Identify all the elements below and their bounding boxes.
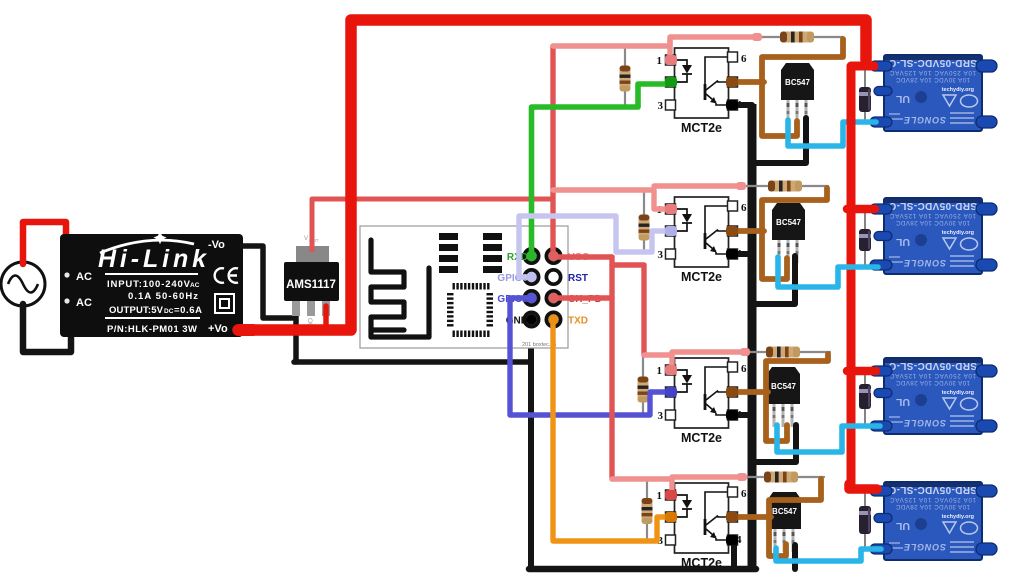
svg-text:6: 6 bbox=[741, 53, 747, 65]
relay RLY2 pin NO bbox=[976, 259, 997, 271]
wire -Vo to AMS1117 GND (black) bbox=[242, 246, 292, 318]
ESP-01 header pin rings bbox=[523, 247, 541, 265]
series resistor R2b body bbox=[768, 181, 802, 192]
relay RLY1 pin NC bbox=[874, 87, 892, 96]
svg-text:BC547: BC547 bbox=[785, 78, 810, 87]
wire channel 3 feed stub to U3 pin 1 bbox=[669, 354, 674, 368]
U4 pin1 cap bbox=[665, 490, 677, 500]
wire channel 4 base network (brown) bbox=[769, 479, 821, 556]
R4b lead cap bbox=[737, 473, 747, 481]
wire Q4 collector to RLY4 coil (cyan) bbox=[776, 548, 881, 561]
+V branch V1 to V2 (red) bbox=[612, 262, 644, 267]
svg-text:10A 30VDC 10A 28VDC: 10A 30VDC 10A 28VDC bbox=[895, 219, 970, 226]
wire Q4 emitter to GND bottom run (black) bbox=[792, 545, 798, 569]
wire GND bottom run (black) bbox=[529, 566, 756, 573]
svg-text:BC547: BC547 bbox=[771, 382, 796, 391]
U4 internal phototransistor bbox=[705, 492, 728, 520]
pull-up resistor R2a body bbox=[639, 215, 650, 241]
svg-text:1: 1 bbox=[657, 365, 663, 377]
svg-text:P/N:HLK-PM01 3W: P/N:HLK-PM01 3W bbox=[107, 324, 197, 335]
flyback diode D1 1N4007 bbox=[859, 87, 871, 112]
wire U1 pin 5 to brown node bbox=[735, 79, 764, 85]
R3b lead cap bbox=[740, 348, 750, 356]
series resistor R2b lead bbox=[741, 185, 828, 187]
svg-text:techydiy.org: techydiy.org bbox=[942, 230, 974, 236]
regulator U2 AMS1117 bbox=[284, 246, 339, 316]
svg-text:3: 3 bbox=[658, 249, 664, 261]
svg-text:UL: UL bbox=[895, 396, 910, 408]
relay RLY4 pin NO bbox=[976, 543, 997, 555]
svg-text:UL: UL bbox=[895, 93, 910, 105]
flyback diode D3 1N4007 bbox=[859, 384, 871, 409]
svg-text:SONGLE: SONGLE bbox=[903, 542, 946, 552]
relay RLY3 pin NO bbox=[976, 420, 997, 432]
relay RLY2 coil pin + bbox=[870, 204, 892, 214]
svg-text:6: 6 bbox=[741, 363, 747, 375]
svg-text:V: V bbox=[304, 236, 308, 242]
flyback diode D1 lead bbox=[864, 62, 866, 122]
relay RLY3 coil pin + bbox=[870, 366, 892, 376]
svg-text:AC: AC bbox=[190, 282, 200, 289]
U2 internal LED bbox=[676, 209, 693, 231]
relay RLY4 coil pin + bbox=[870, 486, 892, 496]
wire channel 2 base network (brown) bbox=[762, 188, 827, 279]
U3 pin4 cap bbox=[726, 410, 738, 420]
wire channel 4 feed stub to U4 pin 1 bbox=[669, 478, 674, 493]
relay RLY2 pin COM bbox=[976, 203, 997, 215]
wire Q2 collector to RLY2 coil (cyan) bbox=[778, 257, 878, 287]
wire U4 pin 5 to brown node bbox=[735, 514, 771, 520]
optocoupler U4 MCT2e body bbox=[657, 483, 748, 570]
U1 pin4 cap bbox=[726, 100, 738, 110]
+5V relay rail (thick red) bbox=[851, 66, 874, 484]
wire U1 pin 4 to GND rail (black) bbox=[733, 102, 752, 108]
flyback diode D3 lead bbox=[864, 369, 866, 426]
U1 internal phototransistor bbox=[705, 57, 728, 85]
pull-up resistor R4a body bbox=[642, 498, 653, 524]
series resistor R4b lead bbox=[742, 476, 824, 478]
relay RLY3 SRD-05VDC-SL-C bbox=[870, 358, 997, 434]
wire channel 4 +V feed (salmon) bbox=[612, 477, 742, 479]
svg-text:techydiy.org: techydiy.org bbox=[942, 514, 974, 520]
svg-text:10A 30VDC 10A 28VDC: 10A 30VDC 10A 28VDC bbox=[895, 76, 970, 83]
svg-text:SONGLE: SONGLE bbox=[903, 418, 946, 428]
svg-text:BC547: BC547 bbox=[776, 218, 801, 227]
svg-text:SRD-05VDC-SL-C: SRD-05VDC-SL-C bbox=[889, 360, 977, 371]
U3 pin5 cap bbox=[726, 387, 738, 397]
pull-up resistor R2a lead bbox=[643, 190, 645, 251]
svg-text:1: 1 bbox=[657, 490, 663, 502]
svg-text:-Vo: -Vo bbox=[208, 239, 225, 251]
U4 pin4 cap bbox=[726, 535, 738, 545]
wire channel 1 feed stub to U1 pin 1 bbox=[667, 40, 672, 58]
svg-text:BC547: BC547 bbox=[772, 507, 797, 516]
wire AMS1117 GND down (black) bbox=[293, 312, 299, 362]
U2 internal phototransistor bbox=[705, 206, 728, 234]
relay RLY1 pin COM bbox=[976, 60, 997, 72]
relay RLY1 pin NO bbox=[976, 116, 997, 128]
ESP-01 PCB antenna bbox=[371, 240, 429, 337]
series resistor R3b body bbox=[766, 347, 800, 358]
svg-text:SONGLE: SONGLE bbox=[903, 115, 946, 125]
svg-text:10A 250VAC 10A 125VAC: 10A 250VAC 10A 125VAC bbox=[889, 69, 976, 76]
svg-text:RST: RST bbox=[568, 273, 588, 284]
wire TXD (orange) ESP to U4 pin 2 bbox=[553, 322, 665, 541]
svg-text:10A 250VAC 10A 125VAC: 10A 250VAC 10A 125VAC bbox=[889, 372, 976, 379]
relay RLY3 pin NC bbox=[874, 389, 892, 398]
wire RXD (green) ESP RX to U1 pin 2 bbox=[532, 84, 666, 253]
svg-text:SRD-05VDC-SL-C: SRD-05VDC-SL-C bbox=[889, 200, 977, 211]
svg-text:techydiy.org: techydiy.org bbox=[942, 390, 974, 396]
wire U3 pin 5 to brown node bbox=[735, 389, 768, 395]
enclosure class II symbol bbox=[215, 294, 234, 313]
wire U4 pin 4 down to GND bottom run (black) bbox=[731, 540, 737, 569]
relay RLY1 coil pin + bbox=[870, 61, 892, 71]
wire Q3 collector to RLY3 coil (cyan) bbox=[777, 425, 880, 452]
wire channel 3 base network (brown) bbox=[766, 354, 828, 441]
svg-text:techydiy.org: techydiy.org bbox=[942, 87, 974, 93]
relay RLY1 SRD-05VDC-SL-C bbox=[870, 55, 997, 131]
R1b lead cap bbox=[752, 33, 762, 41]
pull-up resistor R1a body bbox=[620, 66, 631, 92]
svg-text:10A 250VAC 10A 125VAC: 10A 250VAC 10A 125VAC bbox=[889, 212, 976, 219]
optocoupler U2 MCT2e body bbox=[657, 197, 748, 284]
U2 pin2 cap (GPIO0) bbox=[665, 226, 677, 236]
ESP-01 pad group B bbox=[483, 233, 502, 240]
pull-up resistor R3a lead bbox=[642, 356, 644, 415]
U4 internal LED bbox=[676, 495, 693, 517]
+5V branch to RLY4 coil bbox=[849, 484, 877, 489]
wire channel 1 +V feed (salmon) bbox=[553, 37, 757, 46]
wire U2 pin 5 to brown node bbox=[735, 228, 764, 234]
pull-up resistor R4a lead bbox=[646, 481, 648, 541]
relay RLY3 pin COM bbox=[976, 365, 997, 377]
wire ESP GND down (black) bbox=[528, 321, 534, 569]
relay RLY2 coil pin - bbox=[870, 260, 892, 270]
transistor Q2 BC547 bbox=[772, 203, 805, 263]
svg-text:MCT2e: MCT2e bbox=[681, 121, 722, 135]
U4 pin5 cap bbox=[726, 512, 738, 522]
wire VCC riser (red) ESP VCC up to channel 1 feed bbox=[550, 46, 555, 256]
U2 pin4 cap bbox=[726, 249, 738, 259]
svg-text:INPUT:100-240V: INPUT:100-240V bbox=[107, 279, 191, 290]
pull-up resistor R3a body bbox=[638, 377, 649, 403]
+5V branch to RLY3 coil bbox=[847, 367, 876, 376]
wire Q3 emitter to GND rail (black) bbox=[754, 425, 796, 462]
series resistor R4b body bbox=[764, 472, 798, 483]
U4 pin2 cap (TXD) bbox=[665, 512, 677, 522]
wire channel 3 +V feed (salmon) bbox=[644, 352, 745, 355]
relay RLY2 SRD-05VDC-SL-C bbox=[870, 198, 997, 274]
U3 pin2 cap (GPIO2) bbox=[665, 387, 677, 397]
+V distribution rail V1 (red) bbox=[609, 257, 614, 479]
wire AC neutral (black) from source to PS1 bbox=[23, 304, 71, 352]
optocoupler U1 MCT2e body bbox=[657, 48, 748, 135]
svg-text:10A 250VAC 10A 125VAC: 10A 250VAC 10A 125VAC bbox=[889, 496, 976, 503]
U3 pin1 cap bbox=[665, 365, 677, 375]
svg-text:MCT2e: MCT2e bbox=[681, 556, 722, 570]
svg-text:=0.6A: =0.6A bbox=[174, 305, 202, 316]
ESP-01 chip footprint (QFP) bbox=[453, 283, 455, 290]
wire U3 pin 4 to GND rail (black) bbox=[733, 412, 752, 418]
svg-text:10A 30VDC 10A 28VDC: 10A 30VDC 10A 28VDC bbox=[895, 379, 970, 386]
svg-text:MCT2e: MCT2e bbox=[681, 270, 722, 284]
svg-text:10A 30VDC 10A 28VDC: 10A 30VDC 10A 28VDC bbox=[895, 503, 970, 510]
relay RLY4 SRD-05VDC-SL-C bbox=[870, 482, 997, 560]
flyback diode D2 1N4007 bbox=[859, 229, 871, 251]
wire AC live (red) from source to PS1 bbox=[23, 222, 66, 264]
wire Q2 emitter to GND rail (black) bbox=[754, 256, 795, 304]
U1 pin5 cap bbox=[726, 77, 738, 87]
wire channel 2 feed to R2b (salmon) bbox=[654, 183, 741, 188]
+5V bus (thick red) PS1 +Vo to relay rail bbox=[238, 20, 866, 330]
series resistor R1b lead bbox=[741, 36, 843, 38]
relay RLY2 pin NC bbox=[874, 232, 892, 241]
relay RLY3 coil pin - bbox=[870, 421, 892, 431]
pull-up resistor R1a lead bbox=[624, 46, 626, 107]
wire GND to ESP (black) bbox=[294, 359, 531, 365]
svg-text:AC: AC bbox=[76, 297, 92, 309]
svg-text:SRD-05VDC-SL-C: SRD-05VDC-SL-C bbox=[889, 484, 977, 495]
ESP-01 PCB antenna rung bbox=[371, 327, 404, 332]
series resistor R3b lead bbox=[745, 351, 830, 353]
svg-text:UL: UL bbox=[895, 236, 910, 248]
wire GPIO0 (lavender) ESP to U2 pin 2 bbox=[519, 216, 665, 277]
U2 pin1 cap bbox=[665, 204, 677, 214]
+5V cap at PS1 +Vo bbox=[233, 324, 259, 336]
svg-text:TXD: TXD bbox=[568, 316, 588, 327]
svg-text:0.1A 50-60Hz: 0.1A 50-60Hz bbox=[128, 291, 198, 302]
transistor Q4 BC547 bbox=[768, 492, 801, 552]
svg-text:+Vo: +Vo bbox=[208, 323, 228, 335]
flyback diode D4 lead bbox=[864, 487, 866, 549]
relay RLY4 pin NC bbox=[874, 514, 892, 523]
U3 internal LED bbox=[676, 370, 693, 392]
wire channel 1 base network (brown) bbox=[762, 39, 843, 136]
wire 3.3V AMS out to ESP VCC (red) bbox=[312, 199, 553, 250]
ESP pin centers bbox=[526, 251, 536, 261]
U1 pin1 cap bbox=[665, 55, 677, 65]
svg-text:SRD-05VDC-SL-C: SRD-05VDC-SL-C bbox=[889, 57, 977, 68]
flyback diode D4 1N4007 bbox=[859, 506, 871, 534]
wire GPIO2 (blue) ESP to U3 pin 2 bbox=[510, 298, 665, 415]
U1 pin2 cap (RXD) bbox=[665, 77, 677, 87]
svg-text:OUTPUT:5V: OUTPUT:5V bbox=[109, 305, 164, 316]
relay RLY4 coil pin - bbox=[870, 544, 892, 554]
svg-text:AC: AC bbox=[76, 271, 92, 283]
relay RLY4 pin COM bbox=[976, 485, 997, 497]
AC source V1 (mains symbol) bbox=[1, 262, 45, 306]
ESP-01 pad group A bbox=[439, 233, 458, 240]
wire AMS1117 Vin from +5V (red stub) bbox=[323, 306, 329, 329]
svg-text:SONGLE: SONGLE bbox=[903, 258, 946, 268]
module ESP-01 board bbox=[360, 226, 602, 348]
GND rail vertical (black) bbox=[748, 104, 757, 569]
U2 pin5 cap bbox=[726, 226, 738, 236]
wire channel 2 +V feed (salmon) bbox=[553, 190, 666, 209]
optocoupler U3 MCT2e body bbox=[657, 358, 748, 445]
relay RLY1 coil pin - bbox=[870, 117, 892, 127]
wire Q1 collector to RLY1 coil (cyan) bbox=[788, 120, 876, 146]
transistor Q3 BC547 bbox=[767, 367, 800, 427]
+V distribution rail V2 (red) bbox=[641, 265, 646, 355]
wire CH_PD to +V rail V1 (red) bbox=[556, 295, 612, 300]
flyback diode D2 lead bbox=[864, 209, 866, 267]
svg-text:AMS1117: AMS1117 bbox=[286, 279, 336, 291]
wire U2 pin 4 to GND rail (black) bbox=[733, 251, 752, 257]
wire Q1 emitter to GND rail (black) bbox=[754, 118, 806, 163]
svg-text:UL: UL bbox=[895, 520, 910, 532]
svg-text:6: 6 bbox=[741, 488, 747, 500]
transistor Q1 BC547 bbox=[781, 63, 814, 123]
svg-text:3: 3 bbox=[658, 410, 664, 422]
svg-text:6: 6 bbox=[741, 202, 747, 214]
svg-text:DC: DC bbox=[164, 308, 174, 315]
power module PS1 HLK-PM01 bbox=[60, 231, 243, 337]
series resistor R1b body bbox=[780, 32, 814, 43]
svg-text:3: 3 bbox=[658, 100, 664, 112]
wire VCC to +V rail V1 (red) bbox=[556, 254, 612, 259]
+5V branch to RLY2 coil bbox=[847, 205, 875, 214]
CE mark bbox=[215, 268, 238, 283]
R2b lead cap bbox=[736, 182, 746, 190]
svg-text:MCT2e: MCT2e bbox=[681, 431, 722, 445]
svg-text:1: 1 bbox=[657, 55, 663, 67]
U3 internal phototransistor bbox=[705, 367, 728, 395]
U1 internal LED bbox=[676, 60, 693, 82]
